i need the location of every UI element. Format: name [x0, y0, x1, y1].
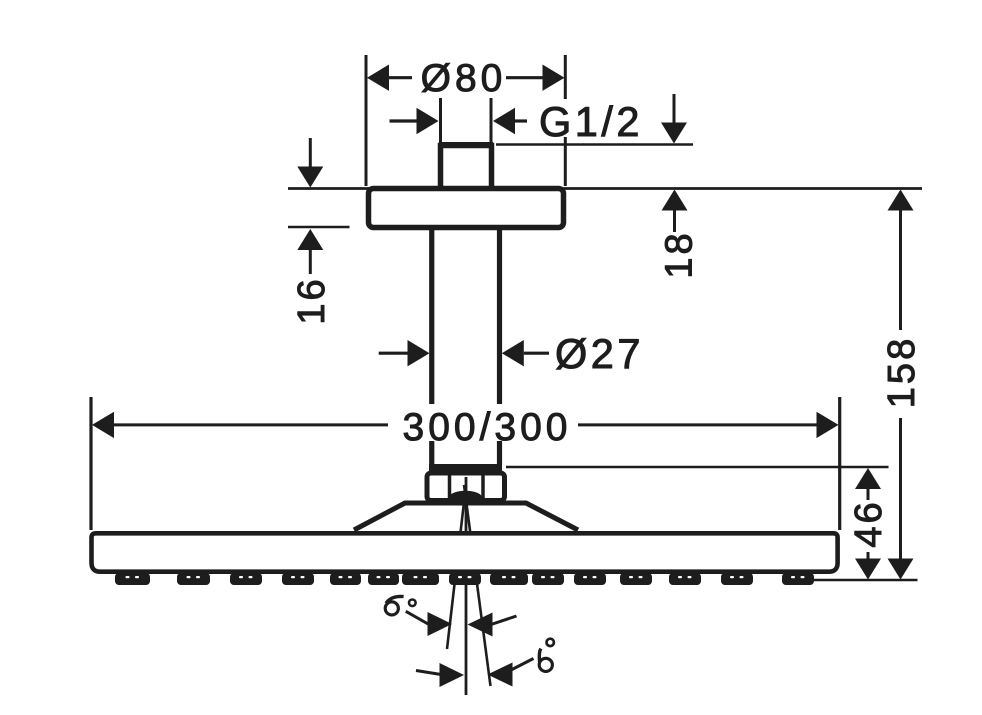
dim O80 extension left	[365, 55, 368, 186]
dim G1/2 line left	[390, 119, 419, 122]
dim 46 upper arrow	[855, 468, 881, 489]
nut facet left	[448, 476, 452, 499]
dim O27 arrow left	[408, 340, 430, 366]
dim 16 reference line flange bottom	[288, 226, 350, 229]
pipe end collar	[429, 464, 502, 472]
svg-text:Ø80: Ø80	[421, 57, 507, 100]
dim 300/300 arrow right	[817, 412, 839, 438]
dim G1/2 arrow right	[493, 108, 515, 134]
angle 6 lower arrow left	[440, 663, 465, 687]
angle 6 upper leader left	[406, 611, 429, 624]
angle 6 upper arrow right	[468, 613, 493, 637]
ball joint	[449, 491, 482, 505]
ceiling line	[288, 187, 922, 190]
dim O80 arrow right	[543, 65, 565, 91]
dim 16 lower shaft	[309, 250, 312, 274]
svg-text:18: 18	[659, 230, 701, 278]
spray centerline	[465, 477, 468, 695]
dim O27 arrow right	[502, 340, 524, 366]
dim 300/300 line	[112, 423, 817, 426]
dim 16 upper shaft	[309, 138, 312, 167]
union nut	[427, 473, 505, 501]
pipe left wall	[429, 230, 434, 464]
dim 300/300 arrow left	[92, 412, 114, 438]
dim 18 lower shaft	[673, 211, 676, 233]
dim O27 leader left	[379, 352, 408, 355]
angle 6 lower arrow right	[488, 663, 513, 687]
dim O80 extension right	[564, 55, 567, 186]
dim 46 lower arrow	[855, 559, 881, 580]
ceiling flange	[369, 189, 564, 228]
svg-text:Ø27: Ø27	[555, 330, 644, 377]
dim 16 lower arrow	[297, 229, 323, 250]
dim 158 shafts	[899, 211, 902, 560]
dim G1/2 arrow left	[417, 108, 439, 134]
dim O80 line	[388, 76, 544, 79]
svg-text:158: 158	[881, 336, 923, 408]
shower head plate	[92, 533, 838, 571]
dim 300/300 extension left	[89, 397, 92, 530]
dim 18 upper arrow	[661, 123, 687, 144]
spray axis tilted right 6deg	[464, 485, 491, 686]
dim 18 upper arrow shaft	[673, 94, 676, 123]
angle 6 lower leader right	[511, 659, 534, 671]
dim 300/300 extension right	[838, 397, 841, 530]
dim G1/2 extension right	[490, 98, 493, 142]
svg-text:300/300: 300/300	[403, 406, 572, 449]
dim 46 shafts	[867, 489, 870, 559]
connector stub G1/2	[439, 142, 493, 150]
nozzle highlights	[126, 576, 805, 578]
dim 158 lower arrow	[888, 559, 914, 580]
angle 6 upper leader right	[491, 616, 517, 625]
head top reference line for 46	[506, 466, 889, 469]
svg-text:46: 46	[848, 499, 890, 547]
nut facet right	[481, 476, 485, 499]
spray face reference line	[803, 579, 918, 582]
angle 6 upper text	[385, 596, 415, 615]
angle 6 lower text	[539, 639, 554, 672]
stub top reference line	[496, 143, 693, 146]
dim G1/2 line right	[514, 119, 527, 122]
angle 6 upper arrow left	[428, 612, 453, 636]
svg-text:G1/2: G1/2	[539, 98, 643, 145]
dim O27 leader right	[524, 352, 549, 355]
spray axis tilted left 6deg	[447, 485, 466, 649]
dim 16 upper arrow	[297, 167, 323, 188]
pipe right wall	[497, 230, 502, 464]
svg-text:16: 16	[291, 276, 333, 324]
spray nozzles	[115, 573, 814, 585]
dim G1/2 extension left	[439, 98, 442, 142]
dim 158 upper arrow	[888, 190, 914, 211]
cone shoulder	[354, 503, 578, 530]
angle 6 lower leader left	[416, 671, 441, 675]
dim O80 arrow left	[367, 65, 389, 91]
dim 18 lower arrow	[662, 190, 688, 211]
